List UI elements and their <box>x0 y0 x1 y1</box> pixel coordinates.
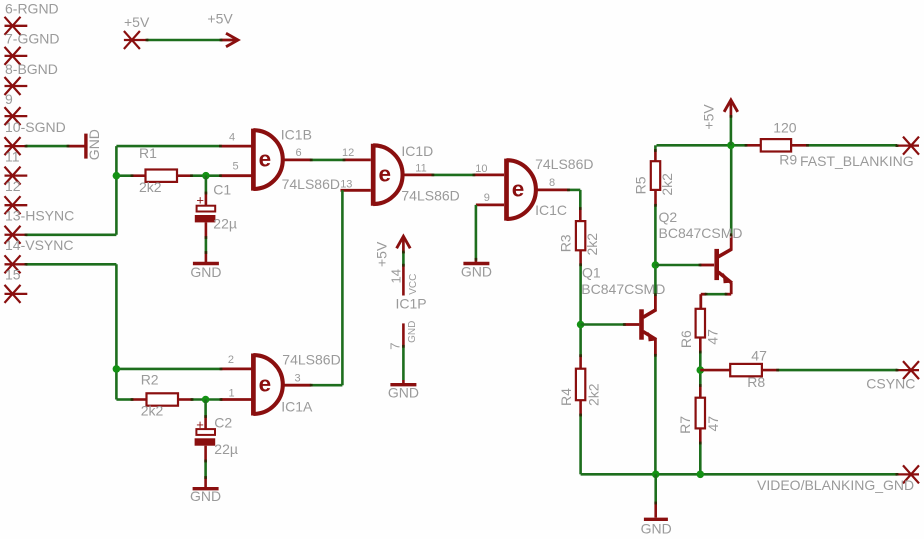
svg-text:CSYNC: CSYNC <box>866 375 915 391</box>
svg-text:GND: GND <box>388 384 419 400</box>
svg-text:1: 1 <box>229 388 235 400</box>
svg-text:74LS86D: 74LS86D <box>282 352 340 368</box>
svg-text:+5V: +5V <box>124 14 150 30</box>
svg-text:8-BGND: 8-BGND <box>5 61 58 77</box>
svg-text:2k2: 2k2 <box>659 173 675 196</box>
svg-text:2k2: 2k2 <box>141 402 164 418</box>
svg-text:47: 47 <box>704 329 720 345</box>
svg-text:R1: R1 <box>139 145 157 161</box>
svg-text:74LS86D: 74LS86D <box>401 188 459 204</box>
svg-text:R7: R7 <box>677 416 693 434</box>
svg-text:R8: R8 <box>747 374 765 390</box>
svg-text:7: 7 <box>387 343 402 350</box>
svg-text:VCC: VCC <box>408 274 419 295</box>
svg-text:e: e <box>512 177 525 202</box>
svg-text:11: 11 <box>5 148 20 164</box>
svg-text:4: 4 <box>229 132 235 144</box>
svg-text:10-SGND: 10-SGND <box>5 119 66 135</box>
svg-text:9: 9 <box>5 91 13 107</box>
svg-text:R4: R4 <box>558 388 574 406</box>
svg-text:GND: GND <box>190 488 221 504</box>
svg-text:e: e <box>259 372 272 397</box>
svg-text:GND: GND <box>190 264 221 280</box>
svg-text:22µ: 22µ <box>213 215 237 231</box>
svg-text:6-RGND: 6-RGND <box>5 1 59 17</box>
svg-text:+5V: +5V <box>700 104 716 130</box>
svg-text:14: 14 <box>388 269 403 283</box>
svg-text:2k2: 2k2 <box>584 233 600 256</box>
svg-text:+5V: +5V <box>374 241 390 267</box>
svg-text:BC847CSMD: BC847CSMD <box>581 281 665 297</box>
svg-text:GND: GND <box>461 264 492 280</box>
svg-text:5: 5 <box>233 160 239 172</box>
svg-text:47: 47 <box>751 348 767 364</box>
svg-text:2k2: 2k2 <box>586 383 602 406</box>
svg-text:R3: R3 <box>557 234 573 252</box>
svg-text:120: 120 <box>773 120 797 136</box>
svg-text:11: 11 <box>415 163 426 175</box>
svg-text:IC1P: IC1P <box>396 295 427 311</box>
svg-text:IC1B: IC1B <box>281 126 312 142</box>
svg-text:8: 8 <box>549 177 555 189</box>
svg-text:12: 12 <box>342 147 354 159</box>
svg-text:e: e <box>259 147 272 172</box>
svg-text:+: + <box>196 192 204 207</box>
svg-text:GND: GND <box>86 129 102 160</box>
svg-text:IC1D: IC1D <box>401 143 433 159</box>
svg-text:3: 3 <box>295 372 301 384</box>
svg-text:13: 13 <box>340 179 352 191</box>
svg-text:R9: R9 <box>779 151 797 167</box>
svg-text:FAST_BLANKING: FAST_BLANKING <box>800 153 914 169</box>
svg-text:R5: R5 <box>632 176 648 194</box>
svg-text:BC847CSMD: BC847CSMD <box>659 225 743 241</box>
svg-text:+: + <box>196 417 204 432</box>
svg-text:VIDEO/BLANKING_GND: VIDEO/BLANKING_GND <box>757 477 914 493</box>
svg-text:2k2: 2k2 <box>139 179 162 195</box>
svg-text:C2: C2 <box>214 415 232 431</box>
svg-text:e: e <box>378 162 391 187</box>
svg-text:+5V: +5V <box>207 11 233 27</box>
svg-text:R6: R6 <box>678 330 694 348</box>
svg-text:13-HSYNC: 13-HSYNC <box>5 208 74 224</box>
svg-text:14-VSYNC: 14-VSYNC <box>5 237 73 253</box>
svg-text:9: 9 <box>484 192 490 204</box>
svg-text:IC1A: IC1A <box>281 398 313 414</box>
svg-text:6: 6 <box>296 147 302 159</box>
svg-text:22µ: 22µ <box>214 441 238 457</box>
svg-text:10: 10 <box>475 163 487 175</box>
svg-text:GND: GND <box>407 321 418 343</box>
svg-text:74LS86D: 74LS86D <box>282 176 340 192</box>
svg-text:Q2: Q2 <box>659 209 678 225</box>
svg-text:74LS86D: 74LS86D <box>535 156 593 172</box>
svg-text:47: 47 <box>705 416 721 432</box>
svg-text:7-GGND: 7-GGND <box>5 31 59 47</box>
svg-text:Q1: Q1 <box>582 265 601 281</box>
svg-text:R2: R2 <box>141 371 159 387</box>
svg-text:C1: C1 <box>213 182 231 198</box>
svg-text:IC1C: IC1C <box>535 202 567 218</box>
svg-text:2: 2 <box>228 354 234 366</box>
svg-text:GND: GND <box>641 521 672 537</box>
svg-text:15: 15 <box>5 267 21 283</box>
svg-text:12: 12 <box>5 178 21 194</box>
